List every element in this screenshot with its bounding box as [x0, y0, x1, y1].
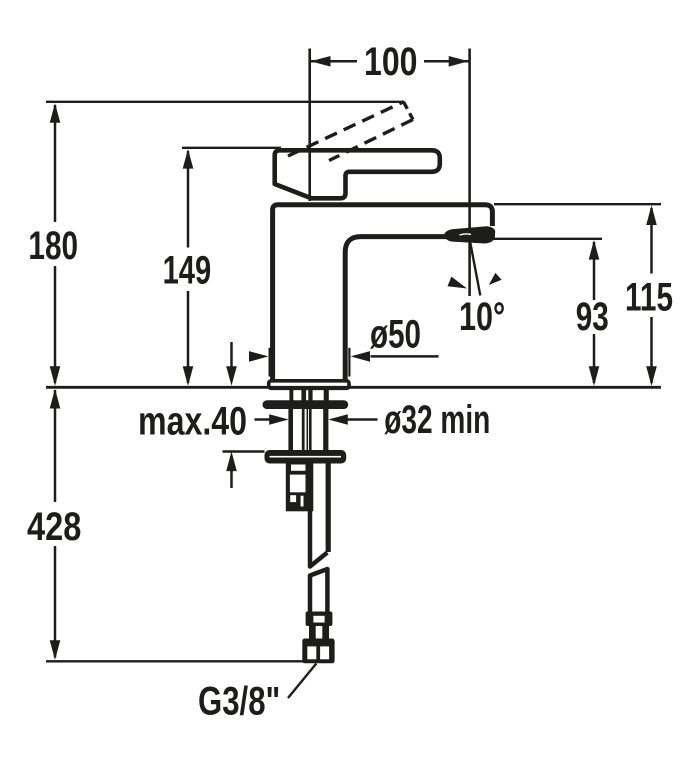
lever raised position (dashed) upper line: [288, 102, 404, 156]
tailpiece rod B: [302, 405, 305, 462]
dimension o50 arrow tail: [371, 355, 439, 358]
arrowhead 428 bottom: [50, 640, 61, 660]
arrowhead max40 up: [226, 452, 237, 472]
dimension o32 left arrow tail: [255, 418, 270, 421]
arrowhead o32 right: [328, 414, 348, 425]
rubber washer: [263, 400, 349, 409]
dimension max40 lower arrow line: [230, 471, 233, 488]
svg-text:180: 180: [28, 224, 78, 268]
wire 149 top reference line: [182, 147, 281, 149]
svg-text:ø50: ø50: [370, 313, 421, 357]
arrowhead 10deg right: [489, 273, 502, 285]
arrowhead 428 top: [50, 389, 61, 409]
arrowhead o32 left: [269, 414, 289, 425]
wire counter mounting surface line: [46, 386, 661, 389]
svg-text:93: 93: [576, 295, 609, 339]
dimension 180 line: [54, 105, 57, 222]
tailpiece rod B upper: [301, 388, 306, 401]
faucet body and spout outline: [273, 205, 493, 380]
hose coupling: [306, 612, 333, 627]
wire max.40 leader line: [223, 450, 265, 452]
aerator white notch: [460, 234, 472, 235]
arrowhead 149 bottom: [183, 366, 194, 386]
G3/8 connector nut: [302, 639, 334, 664]
wire extension line right of 100 / vertical 10deg reference: [468, 49, 471, 297]
arrowhead 180 bottom: [50, 366, 61, 386]
arrowhead 10deg left: [448, 277, 468, 289]
faucet lever handle (closed position): [275, 150, 440, 198]
wire top reference line (handle open height): [46, 101, 404, 103]
arrowhead o50 left: [249, 351, 269, 362]
lever raised position (dashed) lower line: [329, 120, 413, 161]
tailpiece rod D: [309, 405, 312, 462]
aerator outlet: [444, 226, 495, 243]
dimension 115 line: [650, 208, 653, 274]
faucet spout underside: [345, 237, 447, 380]
wire o50 left extension tick: [269, 348, 271, 377]
arrowhead 149 top: [183, 149, 194, 169]
wire 428 bottom reference line: [46, 660, 303, 662]
mounting block: [286, 462, 314, 511]
arrowhead max40 down: [226, 366, 237, 386]
lever raised position (dashed) end cap: [404, 102, 414, 120]
hose neck left wall: [309, 626, 316, 639]
arrowhead 115 top: [646, 205, 657, 225]
svg-text:ø32 min: ø32 min: [384, 398, 490, 442]
arrowhead 93 bottom: [589, 366, 600, 386]
svg-text:max.40: max.40: [138, 400, 247, 444]
svg-text:149: 149: [163, 249, 212, 293]
arrowhead 100 right: [449, 56, 469, 67]
hose neck right wall: [322, 626, 329, 639]
tailpiece rod C: [307, 405, 309, 462]
wire 115 reference line: [494, 203, 661, 205]
mounting washer and nut: [265, 450, 347, 464]
flexible hose lower segment: [310, 569, 327, 613]
tailpiece rod E: [323, 405, 328, 462]
dimension o32 right arrow tail: [348, 418, 378, 421]
dimension 100 line: [311, 60, 357, 63]
arrowhead o50 right: [351, 351, 371, 362]
arrowhead 115 bottom: [646, 366, 657, 386]
arrowhead 100 left: [311, 56, 331, 67]
tailpiece rod E upper: [324, 388, 329, 401]
flexible hose upper segment: [310, 508, 327, 567]
tailpiece rod A: [288, 405, 293, 462]
svg-text:100: 100: [364, 40, 418, 84]
dimension max40 upper arrow line: [230, 342, 233, 367]
wire o50 right extension tick: [348, 348, 350, 377]
tailpiece rod D upper: [308, 388, 312, 401]
dimension 428 line: [54, 390, 57, 502]
wire G3/8 leader line: [288, 664, 316, 699]
tailpiece rod A upper: [289, 388, 293, 401]
arrowhead 93 top: [589, 240, 600, 260]
dimension 149 line: [187, 151, 190, 248]
svg-text:115: 115: [625, 276, 673, 320]
wire extension line left of 100: [308, 49, 311, 202]
base plate: [269, 381, 349, 389]
svg-text:10°: 10°: [459, 295, 505, 339]
svg-text:428: 428: [27, 505, 81, 549]
wire 10 degree slant line: [470, 239, 481, 296]
dimension 93 line: [593, 242, 596, 300]
svg-text:G3/8": G3/8": [198, 680, 280, 724]
supply tube right wall: [326, 462, 331, 552]
arrowhead 180 top: [50, 103, 61, 123]
wire 93 reference line: [488, 238, 602, 240]
